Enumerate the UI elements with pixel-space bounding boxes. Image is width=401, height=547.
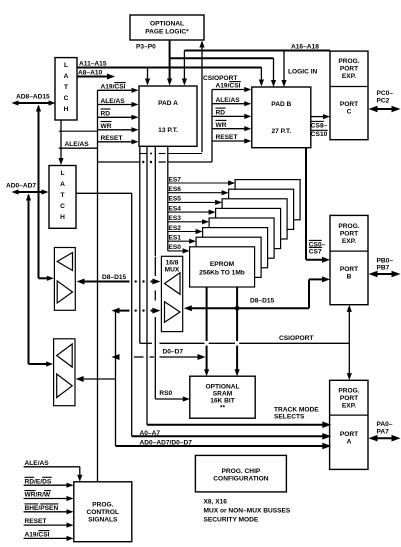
svg-text:RD: RD: [216, 110, 226, 117]
svg-text:PA0–: PA0–: [377, 421, 393, 428]
svg-text:RS0: RS0: [159, 390, 172, 397]
optional SRAM box: [190, 376, 255, 418]
16/8 MUX box: [161, 256, 182, 331]
EPROM front box ES0: [190, 247, 255, 287]
svg-text:ES3: ES3: [169, 215, 182, 222]
wire AD0-AD7/D0-D7 line: [116, 440, 332, 450]
wire AD vertical from data line2: [115, 311, 117, 446]
svg-text:256Kb TO 1Mb: 256Kb TO 1Mb: [199, 270, 245, 277]
svg-text:ALE/AS: ALE/AS: [65, 141, 90, 148]
svg-text:ES0: ES0: [169, 244, 182, 251]
wire A11-A15 arrow into PAD B: [259, 68, 264, 87]
svg-text:PA7: PA7: [377, 428, 390, 435]
svg-text:CSIOPORT: CSIOPORT: [203, 75, 237, 82]
wire A0-A7 line: [132, 193, 332, 439]
svg-text:RESET: RESET: [216, 134, 238, 141]
svg-text:A: A: [60, 181, 65, 188]
svg-text:A19/CSI: A19/CSI: [216, 83, 241, 90]
wire RESET bottom: [24, 518, 74, 528]
svg-text:CONTROL: CONTROL: [86, 509, 119, 516]
wire AD0-AD7 port: [6, 183, 49, 195]
svg-text:WR: WR: [101, 123, 112, 130]
svg-text:L: L: [60, 170, 64, 177]
wire AD0 vertical to buffer2: [26, 194, 53, 367]
svg-text:D0–D7: D0–D7: [163, 348, 184, 355]
svg-text:PORT: PORT: [340, 101, 358, 108]
wire RD into PAD A: [98, 109, 139, 120]
svg-text:A: A: [64, 73, 69, 80]
wire D0-D7: [112, 348, 206, 360]
prog port exp / port A box: [330, 380, 368, 469]
wire PAD A fan vertical track: [146, 146, 148, 424]
svg-text:A: A: [347, 439, 352, 446]
svg-text:EPROM: EPROM: [210, 261, 235, 268]
wire ES4: [168, 205, 216, 214]
svg-text:ES4: ES4: [169, 205, 182, 212]
wire RD into PAD B: [212, 108, 251, 119]
svg-text:CSIOPORT: CSIOPORT: [279, 335, 313, 342]
svg-text:16/8: 16/8: [166, 260, 179, 267]
wire ES3: [168, 215, 209, 224]
wire P3-P0 branch to PAD B: [170, 58, 277, 87]
EPROM stack ES1-ES7 back boxes: [196, 180, 300, 278]
prog port exp / port C box: [330, 51, 368, 140]
svg-text:RESET: RESET: [25, 518, 47, 525]
svg-text:ES1: ES1: [169, 235, 182, 242]
node A19/CSI label: [98, 83, 139, 93]
wire AD8-AD15 port: [12, 94, 56, 106]
svg-text:D8–D15: D8–D15: [250, 297, 275, 304]
svg-text:H: H: [60, 214, 65, 221]
svg-text:C: C: [64, 95, 69, 102]
wire P3-P0 from page logic into PAD A: [167, 40, 172, 86]
node ALE/AS label frame: [59, 131, 98, 148]
svg-text:EXP.: EXP.: [342, 73, 356, 80]
prog chip configuration box: [195, 455, 286, 492]
optional page logic box: [130, 15, 204, 40]
wire WR/R/W: [24, 491, 74, 502]
svg-text:BHE/PSEN: BHE/PSEN: [25, 505, 59, 512]
wire PB0-PB7: [369, 257, 401, 277]
svg-text:MUX: MUX: [165, 267, 180, 274]
svg-text:27 P.T.: 27 P.T.: [271, 128, 291, 135]
svg-text:PROG.: PROG.: [338, 388, 359, 395]
wire RESET into PAD A: [98, 135, 139, 144]
svg-text:ALE/AS: ALE/AS: [216, 97, 241, 104]
wire PAD A fan vertical RS0: [154, 146, 156, 256]
svg-text:A16–A18: A16–A18: [291, 44, 319, 51]
wire row1 CS bus below PAD A: [140, 153, 202, 155]
wire D8-D15 MUX to PORT B: [184, 276, 330, 311]
wire buffer2 stub: [76, 376, 116, 382]
svg-text:P3–P0: P3–P0: [136, 44, 156, 51]
wire row2 control bus to PAD B: [98, 161, 213, 163]
wire A16-A18 arrow into PAD A: [182, 51, 187, 86]
wire WR into PAD A: [98, 122, 139, 133]
wire CSIOPORT vertical to PORT B and PORT A: [347, 305, 352, 380]
svg-text:PORT: PORT: [340, 266, 358, 273]
latch U2: [49, 166, 76, 229]
wire PAD B label vertical: [211, 90, 213, 163]
svg-text:SELECTS: SELECTS: [274, 414, 305, 421]
wire ES6: [168, 186, 229, 195]
svg-text:16K BIT: 16K BIT: [210, 398, 235, 405]
svg-text:RD/E/DS: RD/E/DS: [25, 478, 52, 485]
svg-text:OPTIONAL: OPTIONAL: [205, 384, 239, 391]
svg-text:PORT: PORT: [340, 431, 358, 438]
wire CSIOPORT vertical up into page logic: [199, 41, 237, 153]
svg-text:A11–A15: A11–A15: [79, 61, 107, 68]
wire CS0-CS7 PAD B to PORT B: [306, 148, 330, 263]
svg-text:ALE/AS: ALE/AS: [101, 98, 126, 105]
svg-text:A19/CSI: A19/CSI: [25, 532, 50, 539]
wire WR into PAD B: [212, 120, 251, 131]
svg-text:ALE/AS: ALE/AS: [25, 460, 50, 467]
svg-text:TRACK MODE: TRACK MODE: [274, 406, 319, 413]
svg-text:PORT: PORT: [340, 231, 358, 238]
wire ES1: [168, 235, 196, 244]
wire ALE/AS into PAD B: [212, 97, 251, 107]
wire CS8-CS10 into PORT C: [311, 114, 330, 138]
svg-text:PB7: PB7: [377, 265, 390, 272]
svg-text:T: T: [60, 192, 64, 199]
svg-text:PROG.: PROG.: [338, 58, 359, 65]
svg-text:ES6: ES6: [169, 186, 182, 193]
svg-text:SRAM: SRAM: [213, 391, 233, 398]
wire BHE/PSEN: [24, 504, 74, 515]
buffer block 2: [54, 339, 75, 406]
wire RS0 to SRAM: [155, 390, 190, 401]
wire data line 2 to MUX: [112, 308, 161, 314]
wire ALE/AS bottom into prog control: [24, 460, 83, 482]
wire EPROM data vertical left: [204, 287, 209, 376]
svg-text:WR: WR: [216, 122, 227, 129]
wire D8-D15 buffer1 to MUX: [77, 274, 161, 285]
svg-text:SECURITY MODE: SECURITY MODE: [204, 517, 259, 524]
wire latch2 output to A0-A7 vertical: [76, 192, 132, 194]
wire A16-A18: [184, 44, 330, 51]
wire control bus vertical: [97, 90, 99, 482]
svg-text:PAGE LOGIC*: PAGE LOGIC*: [145, 29, 189, 36]
svg-text:PROG.: PROG.: [338, 223, 359, 230]
svg-text:PC2: PC2: [377, 98, 390, 105]
wire ALE/AS latch1 to latch2: [58, 120, 63, 165]
svg-text:PB0–: PB0–: [377, 257, 394, 264]
PAD A box: [139, 86, 197, 146]
svg-text:CS8–: CS8–: [311, 122, 328, 129]
svg-text:MUX or NON–MUX BUSSES: MUX or NON–MUX BUSSES: [204, 508, 291, 515]
svg-text:CS10: CS10: [311, 131, 328, 138]
wire RD/E/DS: [24, 477, 74, 488]
svg-text:PORT: PORT: [340, 66, 358, 73]
svg-text:AD8–AD15: AD8–AD15: [16, 94, 50, 101]
svg-text:PAD B: PAD B: [271, 101, 291, 108]
bottom note text: [204, 499, 291, 524]
svg-text:RD: RD: [101, 111, 111, 118]
svg-text:X8, X16: X8, X16: [204, 499, 228, 506]
svg-text:ES5: ES5: [169, 196, 182, 203]
svg-text:AD0–AD7/D0–D7: AD0–AD7/D0–D7: [140, 440, 193, 447]
svg-text:PROG.: PROG.: [92, 502, 113, 509]
buffer block 1: [54, 248, 75, 311]
wire RESET into PAD B: [212, 134, 251, 143]
svg-text:PC0–: PC0–: [377, 90, 394, 97]
wire A8-A10: [77, 70, 115, 80]
svg-text:WR/R/W: WR/R/W: [25, 492, 51, 499]
svg-text:AD0–AD7: AD0–AD7: [6, 183, 36, 190]
wire A11-A15 branch into PAD A: [145, 68, 150, 86]
svg-text:B: B: [347, 274, 352, 281]
svg-text:ES2: ES2: [169, 225, 182, 232]
svg-text:C: C: [347, 109, 352, 116]
svg-text:A0–A7: A0–A7: [140, 430, 161, 437]
svg-text:A19/CSI: A19/CSI: [101, 84, 126, 91]
svg-text:C: C: [60, 203, 65, 210]
wire PA0-PA7: [369, 421, 401, 441]
wire track mode select line1: [147, 406, 331, 428]
svg-text:A8–A10: A8–A10: [78, 70, 103, 77]
prog port exp / port B box: [330, 215, 368, 304]
wire PAD A fan vertical CSIOPORT: [139, 146, 141, 343]
svg-text:H: H: [64, 106, 69, 113]
svg-text:EXP.: EXP.: [342, 238, 356, 245]
wire A19/CSI bottom: [24, 531, 74, 541]
svg-text:**: **: [220, 405, 226, 412]
PAD B box: [252, 87, 311, 148]
svg-text:RESET: RESET: [101, 135, 123, 142]
svg-text:OPTIONAL: OPTIONAL: [150, 21, 184, 28]
wire PC0-PC2: [369, 90, 401, 112]
wire ES7: [168, 176, 235, 185]
svg-text:CONFIGURATION: CONFIGURATION: [213, 476, 268, 483]
wire LOGIC IN into PAD B: [281, 51, 317, 88]
latch U1: [55, 58, 77, 120]
wire ALE/AS into PAD A: [98, 98, 139, 107]
svg-text:PAD A: PAD A: [158, 100, 178, 107]
node A19/CSI label B: [212, 82, 251, 93]
svg-text:D8–D15: D8–D15: [102, 274, 127, 281]
wire ES5: [168, 196, 222, 205]
svg-text:SIGNALS: SIGNALS: [88, 517, 118, 524]
svg-text:PORT: PORT: [340, 395, 358, 402]
prog control signals box: [74, 482, 132, 542]
wire EPROM data vertical right: [235, 287, 240, 376]
wire PAD A fan vertical ES: [167, 146, 169, 251]
svg-text:ES7: ES7: [169, 176, 182, 183]
svg-text:L: L: [64, 62, 68, 69]
svg-text:EXP.: EXP.: [342, 403, 356, 410]
svg-text:LOGIC IN: LOGIC IN: [288, 69, 318, 76]
svg-text:T: T: [64, 84, 68, 91]
wire CSIOPORT horizontal: [140, 335, 349, 344]
svg-text:13 P.T.: 13 P.T.: [158, 127, 178, 134]
wire AD8 vertical to buffer1: [36, 105, 54, 281]
svg-text:CS7: CS7: [309, 248, 322, 255]
wire ES2: [168, 225, 203, 234]
wire A11-A15 bus: [77, 61, 261, 68]
wire ES0: [168, 244, 190, 253]
svg-text:PROG. CHIP: PROG. CHIP: [221, 468, 260, 475]
